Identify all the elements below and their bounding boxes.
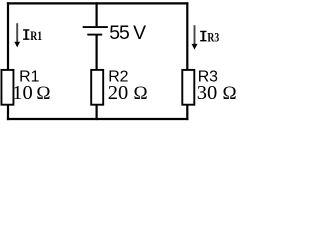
current label I_R3 [200, 30, 219, 44]
wire: middle branch above battery [95, 2, 97, 26]
wire: right rail upper [186, 2, 188, 70]
svg-text:55 V: 55 V [109, 22, 146, 44]
svg-text:10 Ω: 10 Ω [12, 82, 50, 104]
wire: top rail [7, 2, 189, 4]
resistor R2 body [91, 70, 103, 105]
wire: right rail lower [186, 105, 188, 120]
svg-text:30 Ω: 30 Ω [197, 82, 237, 104]
current arrow I_R3 [192, 25, 198, 49]
svg-text:R1: R1 [30, 29, 42, 43]
battery V1 positive plate (long) [83, 26, 108, 28]
current arrow I_R1 [14, 23, 20, 47]
svg-text:20 Ω: 20 Ω [108, 82, 148, 104]
battery V1 negative plate (short) [87, 34, 102, 36]
wire: bottom rail [7, 118, 189, 120]
resistor R3 body [182, 70, 194, 105]
current label I_R1 [23, 29, 42, 43]
wire: middle branch below R2 [95, 105, 97, 120]
svg-text:R3: R3 [207, 30, 219, 44]
wire: middle branch battery to R2 [95, 36, 97, 71]
wire: left rail upper [7, 2, 9, 70]
resistor R1 body [1, 70, 13, 105]
wire: left rail lower [7, 105, 9, 120]
